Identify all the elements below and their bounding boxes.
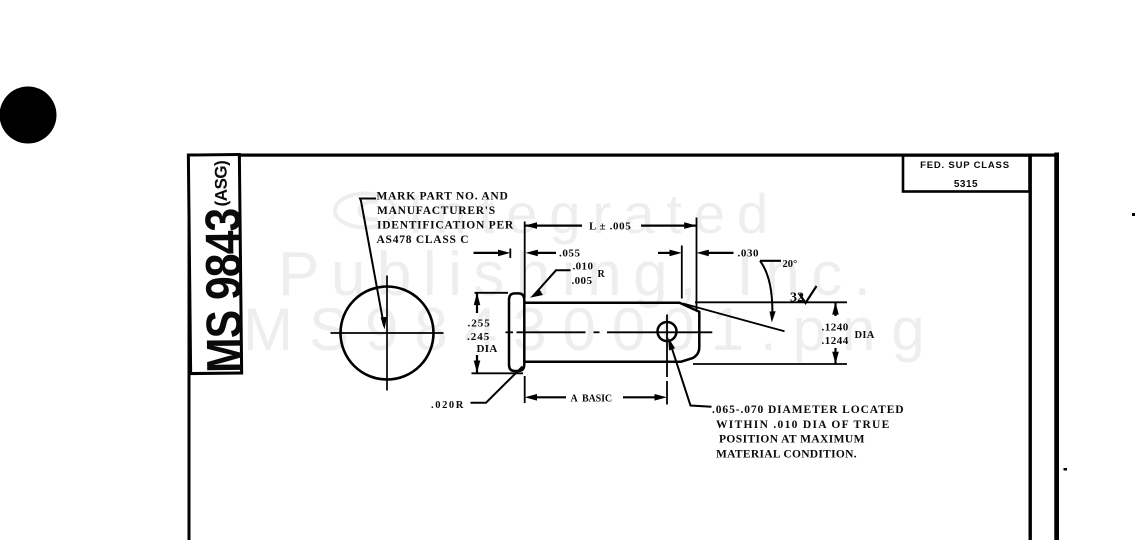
dim .055 extension tick xyxy=(509,249,511,259)
hole vertical centerline xyxy=(666,315,668,378)
svg-text:WITHIN .010 DIA OF TRUE: WITHIN .010 DIA OF TRUE xyxy=(716,419,891,431)
svg-text:.010: .010 xyxy=(573,261,594,273)
svg-text:DIA: DIA xyxy=(477,343,498,355)
dim L +-.005 extension line right xyxy=(696,218,698,312)
svg-text:.065-.070 DIAMETER LOCATED: .065-.070 DIAMETER LOCATED xyxy=(712,404,905,416)
dia .1240/.1244 extension lines xyxy=(695,301,847,303)
svg-text:(ASG): (ASG) xyxy=(211,161,230,207)
svg-text:AS478 CLASS C: AS478 CLASS C xyxy=(377,234,470,246)
svg-text:.245: .245 xyxy=(467,331,490,343)
svg-text:.020R: .020R xyxy=(431,400,465,411)
leader from note to circle center xyxy=(360,199,384,327)
fed sup class box xyxy=(903,156,1030,192)
svg-text:MS 9843: MS 9843 xyxy=(195,208,253,373)
watermark line 1 (c) Integrated xyxy=(335,182,780,245)
punch hole xyxy=(0,87,57,144)
frame outer right border xyxy=(1054,153,1059,540)
dim A BASIC left extension xyxy=(524,376,526,403)
svg-text:.255: .255 xyxy=(468,318,491,330)
dim L +-.005 extension line left xyxy=(524,222,526,299)
leader .020R xyxy=(471,367,523,403)
svg-text:IDENTIFICATION PER: IDENTIFICATION PER xyxy=(377,220,514,232)
pin head outline xyxy=(509,293,524,371)
svg-text:.005: .005 xyxy=(572,275,593,287)
chamfer construction line xyxy=(683,304,785,332)
frame left border xyxy=(188,154,191,540)
svg-text:32: 32 xyxy=(790,291,804,306)
dim L +-.005 line and arrows xyxy=(525,225,582,227)
dia dim line and arrows xyxy=(834,302,836,316)
dim .255/.245 line and arrows xyxy=(476,293,478,313)
end view vertical centerline xyxy=(386,276,388,391)
svg-text:.1244: .1244 xyxy=(822,335,849,347)
svg-text:.055: .055 xyxy=(559,248,581,260)
hole note text xyxy=(712,404,905,461)
note text MARK PART NO xyxy=(377,191,514,247)
svg-text:A BASIC: A BASIC xyxy=(571,394,613,405)
svg-text:MATERIAL CONDITION.: MATERIAL CONDITION. xyxy=(716,449,857,461)
pin horizontal centerline xyxy=(506,331,514,333)
frame top border xyxy=(188,154,1060,157)
dim .030 arrows xyxy=(658,252,672,254)
dim A BASIC line and arrows xyxy=(536,396,566,398)
svg-text:5315: 5315 xyxy=(954,179,978,190)
title block box MS9843 xyxy=(188,154,252,373)
svg-text:.1240: .1240 xyxy=(822,322,849,334)
svg-text:MANUFACTURER'S: MANUFACTURER'S xyxy=(377,205,496,217)
svg-text:POSITION AT MAXIMUM: POSITION AT MAXIMUM xyxy=(719,434,865,446)
svg-text:DIA: DIA xyxy=(855,330,875,341)
dim .255/.245 extension lines xyxy=(475,292,509,294)
frame inner right border xyxy=(1029,155,1032,540)
surface finish 32 mark xyxy=(800,286,817,303)
cross hole xyxy=(658,322,677,341)
dim .030 extension line xyxy=(681,246,683,299)
leader to hole note xyxy=(670,341,712,407)
end view circle xyxy=(341,287,434,380)
svg-text:FED. SUP CLASS: FED. SUP CLASS xyxy=(920,160,1010,171)
pin body outline xyxy=(525,303,700,362)
svg-text:R: R xyxy=(598,269,606,280)
angle 20 deg arc xyxy=(760,261,772,318)
angle 20 deg leader line xyxy=(760,260,781,262)
svg-text:L ± .005: L ± .005 xyxy=(589,221,631,233)
end view horizontal centerline xyxy=(331,332,444,334)
stray specks xyxy=(1132,213,1135,216)
leader .010/.005 R xyxy=(533,270,571,296)
svg-text:MARK PART NO. AND: MARK PART NO. AND xyxy=(377,191,509,203)
svg-text:20°: 20° xyxy=(783,259,798,270)
svg-text:.030: .030 xyxy=(738,248,760,260)
dim .055 arrows xyxy=(474,252,502,254)
